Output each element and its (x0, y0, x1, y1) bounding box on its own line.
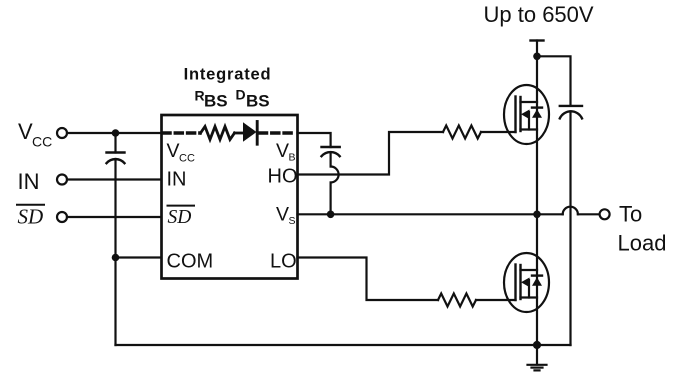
terminal IN (18, 169, 68, 194)
svg-text:BS: BS (204, 92, 228, 111)
svg-text:BS: BS (246, 92, 270, 111)
wire node to cap (114, 133, 116, 153)
capacitor DC bus (560, 106, 582, 119)
svg-text:V: V (276, 140, 289, 162)
svg-text:To: To (619, 202, 642, 227)
resistor gate low side (438, 294, 476, 307)
transistor Q2 low-side MOSFET (504, 253, 549, 312)
svg-text:V: V (167, 140, 180, 162)
wire supply bar to node (536, 41, 538, 57)
svg-text:CC: CC (32, 134, 52, 150)
node VCC/decoupling cap (112, 129, 120, 137)
svg-text:SD: SD (168, 207, 192, 228)
node bus top (533, 53, 541, 61)
svg-text:IN: IN (167, 169, 187, 191)
wire VCC terminal to IC (67, 132, 162, 134)
svg-text:LO: LO (270, 251, 297, 273)
svg-text:IN: IN (18, 169, 40, 194)
label DBS (236, 87, 270, 111)
wire hop to terminal (578, 213, 600, 215)
capacitor bootstrap (322, 147, 340, 156)
wire bottom rail (116, 344, 571, 346)
svg-text:Up to 650V: Up to 650V (484, 2, 594, 27)
resistor gate high side (443, 126, 481, 139)
svg-text:Integrated: Integrated (184, 66, 272, 84)
wire bus branch to DC cap (537, 56, 571, 106)
svg-text:CC: CC (179, 153, 195, 165)
wire SD terminal to IC (67, 216, 162, 218)
svg-text:D: D (236, 87, 246, 103)
wire hop over DC cap line (563, 207, 578, 215)
wire cap to COM node (114, 159, 116, 258)
terminal To Load (600, 202, 667, 256)
wire DC cap to bottom rail (569, 111, 571, 345)
integrated bootstrap path dashed (left run) (163, 131, 200, 135)
pin label VCC (167, 140, 195, 165)
wire bootstrap cap to hop (330, 152, 332, 166)
transistor Q1 high-side MOSFET (504, 85, 549, 144)
IC U1 gate driver (162, 115, 298, 279)
wire VS pin to To Load (298, 213, 563, 215)
svg-text:S: S (289, 215, 296, 227)
node ground junction (533, 341, 541, 349)
terminal VCC (18, 119, 67, 150)
wire LO pin to gate resistor (298, 258, 439, 301)
resistor RBS (201, 127, 235, 140)
svg-text:Load: Load (618, 231, 667, 256)
integrated bootstrap path dashed (right run) (260, 131, 297, 135)
wire resistor to Q2 gate (476, 299, 516, 301)
label RBS (195, 88, 228, 111)
node VS midpoint (533, 211, 541, 219)
wire resistor to diode (235, 132, 244, 135)
ground (528, 345, 547, 370)
wire HO pin to gate resistor (298, 132, 444, 175)
pin label VB (276, 140, 296, 164)
wire Q1 source down through Q2 to ground node (536, 214, 538, 345)
node COM (112, 254, 120, 262)
wire resistor to Q1 gate (481, 131, 516, 133)
svg-text:SD: SD (18, 205, 44, 229)
pin label SD (168, 206, 195, 229)
wire COM node down to bottom rail (114, 258, 116, 346)
node bootstrap/VS (327, 211, 335, 219)
wire hop over HO line (331, 167, 339, 183)
svg-text:HO: HO (268, 166, 298, 188)
capacitor VCC decoupling (107, 153, 125, 164)
svg-text:V: V (18, 119, 33, 144)
wire COM node to IC COM pin (116, 256, 162, 258)
wire VB pin to bootstrap cap (298, 133, 331, 147)
svg-text:B: B (289, 152, 296, 164)
terminal SD (17, 205, 67, 229)
wire hop to VS node (330, 183, 332, 215)
wire IN terminal to IC (67, 178, 162, 180)
svg-text:V: V (276, 204, 289, 226)
wire bus node down to Q1 drain (536, 56, 538, 214)
pin label VS (276, 204, 296, 228)
diode DBS (243, 122, 257, 145)
supply terminal bar (650V bus) (531, 39, 544, 41)
svg-text:COM: COM (167, 251, 214, 273)
